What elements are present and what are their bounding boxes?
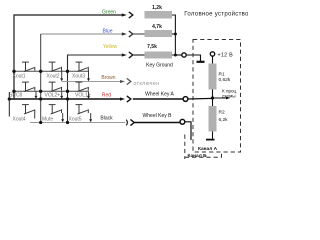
wire into head unit: [186, 55, 200, 61]
resistor R2: [209, 106, 217, 132]
switch S4 (row2 col1): [22, 82, 35, 91]
wire to processor + arrow: [213, 97, 227, 99]
ground bar: [197, 61, 205, 63]
svg-text:Xout4: Xout4: [13, 116, 26, 122]
junction dots matrix: [8, 70, 70, 124]
svg-text:Blue: Blue: [102, 29, 112, 35]
svg-text:Канал Б: Канал Б: [188, 153, 208, 159]
wire R1 to junction to R2: [212, 90, 214, 107]
wire resistor bus: [172, 15, 175, 55]
junction bus-7,5k: [174, 54, 177, 57]
switch S8 (row3 col2): [49, 105, 62, 114]
connector circle wheel key B: [180, 119, 185, 124]
svg-text:+12 В: +12 В: [218, 52, 234, 58]
svg-text:отключен: отключен: [134, 81, 160, 87]
svg-text:Key Ground: Key Ground: [146, 63, 173, 69]
wire stub S7 (dangling): [34, 113, 36, 119]
switch S1 (row1 col1): [22, 62, 35, 71]
svg-text:Wheel Key B: Wheel Key B: [143, 113, 173, 119]
switch S5 (row2 col2): [49, 82, 62, 91]
wire key B to channel B: [185, 122, 191, 140]
wire green row: [14, 15, 123, 99]
wire blue row: [41, 33, 123, 35]
svg-text:1,2k: 1,2k: [152, 5, 162, 11]
wire stub S4 to red + arrow: [35, 91, 37, 96]
bottom terminal bar: [206, 139, 215, 141]
connector circle key ground: [182, 53, 186, 57]
junction node ADC: [211, 96, 214, 99]
connector black: [126, 119, 134, 125]
wire brown row: [62, 81, 121, 83]
svg-text:Brown: Brown: [101, 75, 115, 81]
resistor 7,5k: [145, 52, 173, 59]
wire key ground to connector: [175, 54, 181, 56]
resistor 1,2k: [145, 11, 173, 19]
switch S6 (row2 col3): [76, 82, 89, 91]
switch S7 (row3 col1): [22, 105, 35, 114]
svg-text:Xout5: Xout5: [69, 116, 82, 122]
wire stub S3 to brown + arrow: [88, 70, 90, 78]
svg-text:Red: Red: [102, 93, 111, 99]
wire R2 to bottom bar: [212, 132, 214, 139]
connector red: [120, 96, 131, 102]
wire stub S8 to black + arrow: [62, 113, 64, 120]
svg-text:Xout2: Xout2: [47, 73, 60, 79]
dashed box Канал Б (partial): [184, 135, 186, 160]
svg-text:Wheel Key A: Wheel Key A: [145, 92, 174, 98]
svg-text:0,62k: 0,62k: [219, 77, 231, 83]
wire yellow column/row: [68, 55, 124, 123]
svg-text:6,2k: 6,2k: [219, 117, 229, 123]
switch S3 (row1 col3): [76, 62, 89, 71]
svg-text:7,5k: 7,5k: [147, 44, 157, 50]
svg-text:схемы: схемы: [222, 94, 236, 99]
svg-text:Xout3: Xout3: [72, 73, 85, 79]
svg-text:Xout1: Xout1: [13, 73, 26, 79]
svg-text:Green: Green: [102, 10, 116, 16]
connector green (arrow + chevron): [122, 12, 133, 18]
resistor R1: [209, 64, 217, 90]
wire black row: [30, 122, 125, 124]
dashed box Канал А (head unit channel A): [193, 40, 241, 153]
wire black wheel key B: [134, 122, 179, 124]
svg-text:R2: R2: [219, 110, 225, 116]
wire key A into box: [188, 97, 213, 100]
connector circle wheel key A: [183, 97, 188, 102]
connector blue: [122, 31, 133, 37]
svg-text:Канал А: Канал А: [198, 146, 218, 152]
connector brown: [120, 78, 131, 84]
switch S2 (row1 col2): [49, 62, 62, 71]
wire row2 baseline: [14, 90, 89, 92]
wire row1 baseline: [14, 70, 89, 72]
wire +12 to R1: [212, 56, 214, 63]
svg-text:Головное устройство: Головное устройство: [184, 11, 249, 18]
switch S9 (row3 col3): [76, 105, 89, 114]
resistor 4,7k: [145, 30, 173, 37]
svg-text:Mute: Mute: [42, 116, 53, 122]
wire stub S2 to brown + arrow: [61, 70, 63, 78]
svg-text:SRC8: SRC8: [9, 93, 23, 99]
connector circle +12V: [210, 52, 214, 56]
wire stub S9 to black + arrow: [90, 113, 92, 120]
connector yellow: [122, 52, 133, 58]
junction bus-4,7k: [174, 33, 177, 36]
wire column 2: [40, 34, 42, 123]
svg-text:R1: R1: [219, 72, 225, 78]
wire stub S6 to red + arrow: [88, 91, 90, 96]
svg-text:Black: Black: [100, 116, 113, 122]
svg-text:VOL2+: VOL2+: [45, 93, 61, 99]
wire stub S5 to red + arrow: [61, 91, 63, 96]
wire red wheel key A: [133, 98, 183, 100]
wire left riser x9: [8, 92, 10, 117]
svg-text:4,7k: 4,7k: [152, 24, 162, 30]
wire red row: [9, 98, 121, 100]
svg-text:Yellow: Yellow: [103, 44, 118, 50]
